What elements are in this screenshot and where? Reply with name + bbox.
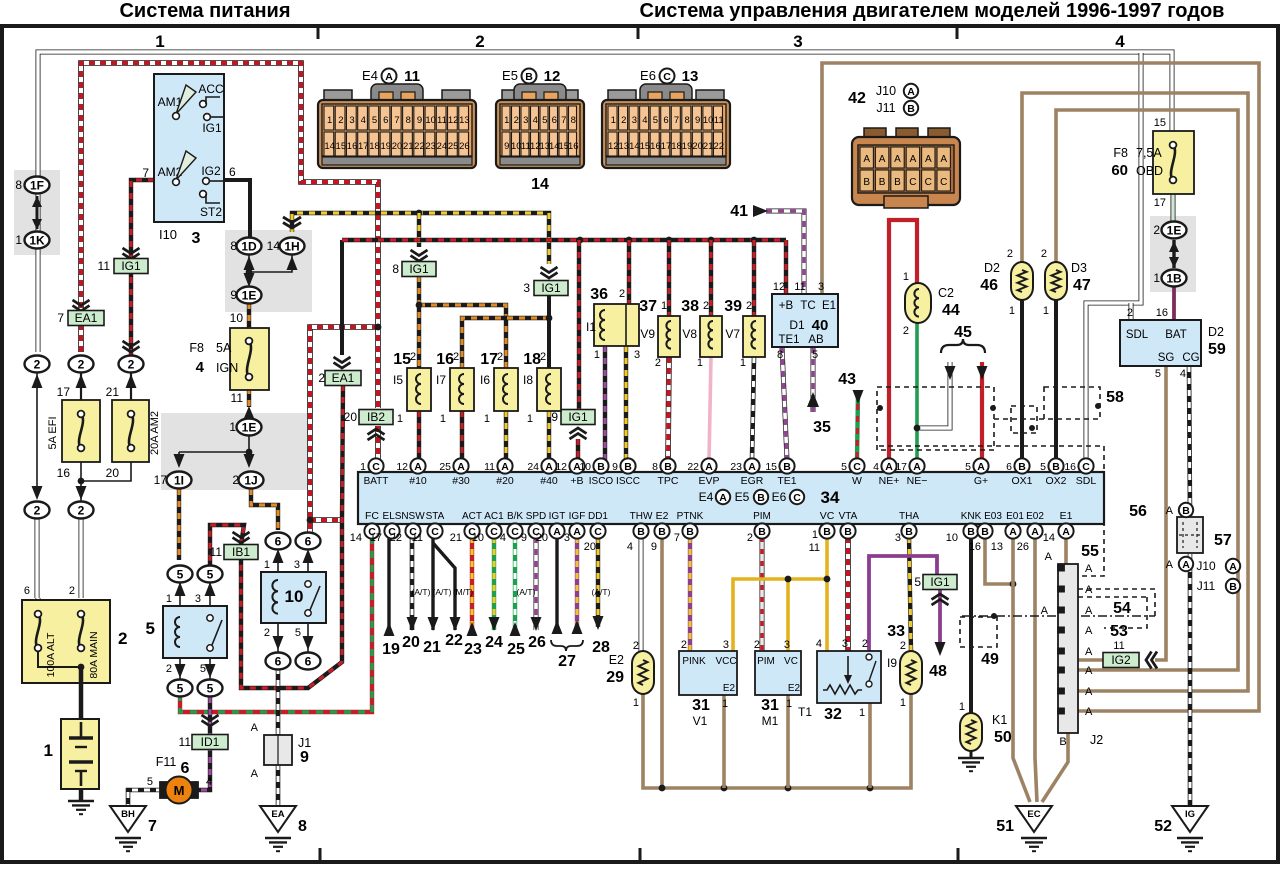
svg-text:2: 2 <box>1041 248 1047 260</box>
svg-text:A: A <box>940 154 947 165</box>
svg-text:4: 4 <box>873 461 879 473</box>
svg-text:1E: 1E <box>1167 223 1182 237</box>
svg-text:17: 17 <box>57 385 71 399</box>
svg-text:46: 46 <box>980 277 998 294</box>
svg-text:IG1: IG1 <box>121 259 141 273</box>
svg-text:E02: E02 <box>1026 511 1044 522</box>
svg-text:IG2: IG2 <box>201 164 221 178</box>
svg-text:33: 33 <box>887 623 905 640</box>
svg-text:T1: T1 <box>798 705 812 719</box>
svg-text:E2: E2 <box>656 510 669 522</box>
svg-text:VTA: VTA <box>839 511 858 522</box>
svg-text:8: 8 <box>571 115 576 126</box>
svg-text:V8: V8 <box>682 327 697 341</box>
svg-text:12: 12 <box>448 115 459 126</box>
svg-text:9: 9 <box>230 288 237 302</box>
svg-text:6: 6 <box>24 585 30 597</box>
svg-text:B: B <box>905 526 913 538</box>
svg-text:11: 11 <box>412 532 423 544</box>
svg-text:A: A <box>251 722 259 734</box>
svg-text:12: 12 <box>773 281 785 293</box>
svg-text:8: 8 <box>777 349 783 361</box>
svg-text:18: 18 <box>671 141 682 152</box>
svg-text:38: 38 <box>681 298 699 315</box>
svg-text:23: 23 <box>425 141 436 152</box>
svg-text:#10: #10 <box>409 475 427 487</box>
svg-text:2: 2 <box>497 351 503 363</box>
svg-text:1: 1 <box>440 413 446 425</box>
svg-text:C: C <box>793 492 801 504</box>
svg-text:16: 16 <box>1064 461 1076 473</box>
svg-text:J10: J10 <box>876 84 896 98</box>
svg-text:5: 5 <box>207 567 214 581</box>
svg-text:Система питания: Система питания <box>119 0 290 22</box>
svg-text:(M/T): (M/T) <box>453 587 473 597</box>
svg-text:59: 59 <box>1208 341 1226 358</box>
svg-text:29: 29 <box>606 669 624 686</box>
svg-text:1: 1 <box>740 357 746 369</box>
svg-text:4: 4 <box>196 359 205 376</box>
svg-text:A: A <box>913 461 921 473</box>
svg-text:5: 5 <box>841 461 847 473</box>
svg-text:I5: I5 <box>393 373 403 387</box>
svg-text:15: 15 <box>1154 117 1166 129</box>
svg-text:2: 2 <box>118 629 127 648</box>
svg-text:1: 1 <box>360 461 366 473</box>
svg-text:13: 13 <box>459 115 470 126</box>
svg-text:2: 2 <box>746 300 752 312</box>
svg-text:C: C <box>372 461 380 473</box>
svg-text:17: 17 <box>895 461 907 473</box>
svg-text:4: 4 <box>642 115 647 126</box>
svg-text:1: 1 <box>859 707 865 719</box>
svg-text:(A/T): (A/T) <box>517 587 536 597</box>
svg-text:B: B <box>1018 461 1026 473</box>
svg-text:1: 1 <box>722 698 728 710</box>
svg-text:A: A <box>879 154 886 165</box>
svg-text:C: C <box>925 177 932 188</box>
svg-text:5: 5 <box>177 567 184 581</box>
svg-text:13: 13 <box>991 541 1003 553</box>
svg-text:+B: +B <box>779 300 794 312</box>
svg-text:THA: THA <box>899 511 919 522</box>
svg-text:6: 6 <box>275 534 282 548</box>
svg-text:ELS: ELS <box>383 511 402 522</box>
svg-text:(A/T): (A/T) <box>433 587 452 597</box>
svg-text:16: 16 <box>568 141 579 152</box>
svg-text:I10: I10 <box>159 227 177 242</box>
svg-text:C: C <box>490 526 498 538</box>
svg-text:PIM: PIM <box>753 511 771 522</box>
svg-text:G+: G+ <box>974 475 988 487</box>
svg-text:M1: M1 <box>762 714 779 728</box>
svg-text:A: A <box>925 154 932 165</box>
svg-text:6: 6 <box>275 654 282 668</box>
svg-text:4: 4 <box>1180 368 1186 380</box>
svg-text:11: 11 <box>437 115 447 126</box>
svg-text:D3: D3 <box>1071 261 1087 275</box>
svg-text:E6: E6 <box>640 68 656 83</box>
svg-text:2: 2 <box>338 115 343 126</box>
svg-text:3: 3 <box>349 115 354 126</box>
svg-text:5: 5 <box>965 461 971 473</box>
svg-text:5: 5 <box>1040 461 1046 473</box>
svg-text:B: B <box>1182 505 1190 517</box>
svg-text:9: 9 <box>504 141 509 152</box>
svg-text:1E: 1E <box>242 288 257 302</box>
svg-text:B: B <box>823 526 831 538</box>
svg-text:3: 3 <box>842 638 848 650</box>
svg-text:EGR: EGR <box>741 475 764 487</box>
svg-text:7: 7 <box>142 166 149 180</box>
svg-text:2: 2 <box>232 473 239 487</box>
svg-text:I9: I9 <box>887 656 897 670</box>
svg-text:OBD: OBD <box>1136 164 1163 178</box>
svg-text:SDL: SDL <box>1076 475 1097 487</box>
svg-text:A: A <box>1085 646 1093 658</box>
svg-text:F8: F8 <box>189 341 204 355</box>
svg-text:5: 5 <box>146 619 155 638</box>
svg-text:A: A <box>1182 559 1190 571</box>
svg-text:20: 20 <box>392 141 403 152</box>
svg-text:26: 26 <box>528 634 546 651</box>
svg-text:9: 9 <box>651 541 657 553</box>
svg-text:2: 2 <box>34 503 41 517</box>
svg-text:21: 21 <box>703 141 714 152</box>
svg-text:A: A <box>1085 605 1093 617</box>
svg-text:J1: J1 <box>298 736 311 750</box>
svg-text:A: A <box>977 461 985 473</box>
svg-text:1: 1 <box>786 698 792 710</box>
svg-text:IB1: IB1 <box>232 545 250 559</box>
svg-text:F11: F11 <box>156 755 177 769</box>
svg-text:27: 27 <box>558 653 576 670</box>
svg-text:C: C <box>940 177 947 188</box>
svg-text:20: 20 <box>344 410 358 424</box>
svg-text:16: 16 <box>969 541 981 553</box>
svg-text:#30: #30 <box>452 475 470 487</box>
svg-text:A: A <box>1085 584 1093 596</box>
svg-text:6: 6 <box>181 760 190 777</box>
svg-text:5A EFI: 5A EFI <box>47 416 59 449</box>
svg-text:12: 12 <box>544 68 561 85</box>
svg-text:C: C <box>853 461 861 473</box>
svg-text:B: B <box>597 461 605 473</box>
svg-text:#40: #40 <box>540 475 558 487</box>
svg-text:14: 14 <box>350 532 362 544</box>
svg-text:C2: C2 <box>938 286 954 300</box>
svg-text:15: 15 <box>640 141 651 152</box>
svg-text:B: B <box>967 526 975 538</box>
svg-text:7: 7 <box>394 115 399 126</box>
svg-text:A: A <box>910 154 917 165</box>
svg-text:5: 5 <box>372 115 377 126</box>
svg-text:A: A <box>1085 625 1093 637</box>
svg-text:7: 7 <box>561 115 566 126</box>
svg-text:ISCC: ISCC <box>616 476 640 487</box>
svg-text:A: A <box>705 461 713 473</box>
svg-text:C: C <box>594 526 602 538</box>
svg-text:IG1: IG1 <box>202 121 222 135</box>
svg-text:100A ALT: 100A ALT <box>45 632 57 677</box>
svg-text:E01: E01 <box>1006 511 1024 522</box>
svg-text:+B: +B <box>570 475 583 487</box>
svg-text:2: 2 <box>453 351 459 363</box>
svg-text:21: 21 <box>106 385 120 399</box>
svg-text:1: 1 <box>812 529 818 541</box>
svg-text:A: A <box>719 492 727 504</box>
svg-text:18: 18 <box>523 351 541 368</box>
svg-text:I6: I6 <box>480 373 490 387</box>
svg-text:20: 20 <box>402 634 420 651</box>
svg-text:34: 34 <box>821 488 840 507</box>
svg-text:M: M <box>174 783 185 798</box>
svg-text:9: 9 <box>551 410 558 424</box>
svg-text:1E: 1E <box>242 420 257 434</box>
svg-text:1: 1 <box>166 593 172 605</box>
svg-text:4: 4 <box>361 115 366 126</box>
svg-text:A: A <box>414 461 422 473</box>
svg-text:1: 1 <box>397 413 403 425</box>
svg-text:28: 28 <box>592 639 610 656</box>
svg-text:9: 9 <box>417 115 422 126</box>
svg-text:5: 5 <box>542 115 547 126</box>
svg-text:1I: 1I <box>174 473 184 487</box>
svg-text:6: 6 <box>1006 461 1012 473</box>
svg-text:5: 5 <box>812 349 818 361</box>
svg-text:B: B <box>1229 581 1237 593</box>
svg-text:ISCO: ISCO <box>589 476 614 487</box>
svg-text:A: A <box>885 461 893 473</box>
svg-text:1D: 1D <box>241 239 257 253</box>
svg-text:16: 16 <box>436 351 454 368</box>
svg-text:I8: I8 <box>523 373 533 387</box>
svg-text:A: A <box>1166 559 1174 571</box>
svg-text:E2: E2 <box>788 683 801 694</box>
svg-text:IGF: IGF <box>569 511 586 522</box>
svg-text:9: 9 <box>521 532 527 544</box>
svg-text:5: 5 <box>147 776 153 788</box>
svg-text:49: 49 <box>981 651 999 668</box>
svg-text:32: 32 <box>824 706 842 723</box>
svg-text:J10: J10 <box>1196 559 1216 573</box>
svg-text:IB2: IB2 <box>367 410 385 424</box>
svg-text:5: 5 <box>653 115 658 126</box>
svg-text:6: 6 <box>305 534 312 548</box>
svg-text:2: 2 <box>540 351 546 363</box>
svg-text:16: 16 <box>347 141 358 152</box>
svg-text:11: 11 <box>794 281 805 293</box>
svg-text:E5: E5 <box>735 490 750 504</box>
svg-text:BH: BH <box>121 809 135 820</box>
svg-text:(A/T): (A/T) <box>412 587 431 597</box>
svg-text:11: 11 <box>1113 640 1124 652</box>
svg-text:NE−: NE− <box>907 475 928 487</box>
svg-text:A: A <box>863 154 870 165</box>
svg-text:KNK: KNK <box>961 511 982 522</box>
svg-text:ST2: ST2 <box>200 205 222 219</box>
svg-text:17: 17 <box>661 141 672 152</box>
svg-text:C: C <box>431 526 439 538</box>
svg-text:B: B <box>783 461 791 473</box>
svg-text:17: 17 <box>358 141 369 152</box>
svg-text:3: 3 <box>895 532 901 544</box>
svg-text:1: 1 <box>15 233 22 247</box>
svg-text:D2: D2 <box>984 261 1000 275</box>
svg-text:31: 31 <box>761 697 779 714</box>
svg-text:B: B <box>658 526 666 538</box>
svg-text:2: 2 <box>1127 307 1133 319</box>
svg-text:SG: SG <box>1158 352 1175 364</box>
svg-text:9: 9 <box>300 749 309 766</box>
svg-text:44: 44 <box>942 302 960 319</box>
svg-text:2: 2 <box>410 351 416 363</box>
svg-text:AC1: AC1 <box>484 511 504 522</box>
svg-text:2: 2 <box>1153 223 1160 237</box>
svg-text:11: 11 <box>714 115 724 126</box>
svg-text:53: 53 <box>1110 623 1128 640</box>
svg-text:B: B <box>879 177 886 188</box>
svg-text:B: B <box>525 71 533 83</box>
svg-text:1K: 1K <box>29 233 45 247</box>
svg-text:EA: EA <box>271 809 284 820</box>
svg-text:2: 2 <box>681 639 687 651</box>
svg-text:A: A <box>1045 551 1053 563</box>
svg-text:2: 2 <box>655 357 661 369</box>
svg-text:10: 10 <box>425 115 436 126</box>
svg-text:OX2: OX2 <box>1045 475 1066 487</box>
svg-text:K1: K1 <box>992 713 1007 727</box>
svg-text:80A MAIN: 80A MAIN <box>88 631 100 678</box>
svg-text:14: 14 <box>267 239 281 253</box>
svg-text:4: 4 <box>816 638 822 650</box>
svg-text:1: 1 <box>264 559 270 571</box>
svg-text:IG1: IG1 <box>409 262 429 276</box>
svg-text:20: 20 <box>106 466 120 480</box>
svg-text:11: 11 <box>484 461 495 473</box>
svg-text:5: 5 <box>1155 368 1161 380</box>
svg-text:E03: E03 <box>984 511 1002 522</box>
svg-text:41: 41 <box>730 203 748 220</box>
svg-text:6: 6 <box>663 115 668 126</box>
svg-text:14: 14 <box>531 176 549 193</box>
svg-text:1: 1 <box>1043 305 1049 317</box>
svg-text:11: 11 <box>231 391 244 405</box>
svg-text:1: 1 <box>44 741 53 760</box>
svg-text:A: A <box>748 461 756 473</box>
svg-text:1H: 1H <box>284 239 299 253</box>
svg-text:2: 2 <box>34 357 41 371</box>
svg-text:9: 9 <box>695 115 700 126</box>
svg-text:EC: EC <box>1027 809 1040 820</box>
svg-text:13: 13 <box>682 68 699 85</box>
svg-text:11: 11 <box>179 735 192 749</box>
svg-text:A: A <box>501 461 509 473</box>
svg-text:18: 18 <box>369 141 380 152</box>
svg-text:3: 3 <box>818 281 824 293</box>
svg-text:PINK: PINK <box>682 656 706 667</box>
svg-text:I1: I1 <box>586 320 596 334</box>
svg-text:20A AM2: 20A AM2 <box>149 411 161 455</box>
svg-text:60: 60 <box>1111 162 1128 179</box>
svg-text:I7: I7 <box>436 373 446 387</box>
svg-text:48: 48 <box>929 663 947 680</box>
svg-text:52: 52 <box>1154 818 1172 835</box>
svg-text:2: 2 <box>862 638 868 650</box>
svg-text:3: 3 <box>294 559 300 571</box>
svg-text:F8: F8 <box>1113 146 1128 160</box>
svg-text:50: 50 <box>994 729 1012 746</box>
svg-text:E4: E4 <box>699 490 714 504</box>
svg-text:8: 8 <box>406 115 411 126</box>
svg-text:2: 2 <box>69 585 75 597</box>
svg-text:25: 25 <box>448 141 459 152</box>
svg-text:1: 1 <box>661 300 667 312</box>
svg-text:3: 3 <box>192 230 201 247</box>
svg-text:36: 36 <box>590 286 608 303</box>
svg-text:A: A <box>1085 686 1093 698</box>
svg-text:J2: J2 <box>1090 733 1103 747</box>
svg-text:6: 6 <box>552 115 557 126</box>
svg-text:2: 2 <box>1007 248 1013 260</box>
svg-text:B: B <box>907 103 915 115</box>
svg-text:24: 24 <box>527 461 539 473</box>
svg-text:7: 7 <box>57 311 64 325</box>
svg-text:2: 2 <box>318 371 325 385</box>
svg-text:4: 4 <box>627 541 633 553</box>
svg-text:ID1: ID1 <box>201 735 220 749</box>
svg-text:40: 40 <box>812 317 829 334</box>
svg-text:23: 23 <box>464 641 482 658</box>
svg-text:SPD: SPD <box>526 511 547 522</box>
svg-text:2: 2 <box>900 640 906 652</box>
svg-text:2: 2 <box>166 663 172 675</box>
svg-text:E5: E5 <box>502 68 518 83</box>
svg-text:A: A <box>1085 706 1093 718</box>
svg-text:(A/T): (A/T) <box>592 587 611 597</box>
svg-text:55: 55 <box>1081 543 1099 560</box>
svg-text:4: 4 <box>533 115 538 126</box>
svg-text:12: 12 <box>555 461 567 473</box>
svg-text:NE+: NE+ <box>879 475 900 487</box>
svg-text:PIM: PIM <box>757 656 775 667</box>
svg-text:A: A <box>385 71 393 83</box>
svg-text:47: 47 <box>1073 277 1091 294</box>
svg-text:56: 56 <box>1129 503 1147 520</box>
svg-text:2: 2 <box>633 640 639 652</box>
svg-text:14: 14 <box>324 141 335 152</box>
svg-text:1: 1 <box>697 357 703 369</box>
svg-text:TC: TC <box>800 300 815 312</box>
svg-text:IG2: IG2 <box>1111 653 1131 667</box>
svg-text:FC: FC <box>365 510 379 522</box>
svg-text:2: 2 <box>703 300 709 312</box>
svg-text:TPC: TPC <box>658 475 679 487</box>
svg-text:20: 20 <box>536 532 548 544</box>
svg-text:C: C <box>909 177 916 188</box>
svg-text:8: 8 <box>684 115 689 126</box>
svg-text:EVP: EVP <box>698 475 719 487</box>
svg-text:26: 26 <box>1017 541 1029 553</box>
svg-text:20: 20 <box>692 141 703 152</box>
svg-text:22: 22 <box>445 632 463 649</box>
svg-text:IG1: IG1 <box>930 575 950 589</box>
svg-text:8: 8 <box>652 461 658 473</box>
svg-text:2: 2 <box>264 627 270 639</box>
svg-text:39: 39 <box>724 298 742 315</box>
svg-text:V7: V7 <box>725 327 740 341</box>
svg-text:35: 35 <box>813 419 831 436</box>
